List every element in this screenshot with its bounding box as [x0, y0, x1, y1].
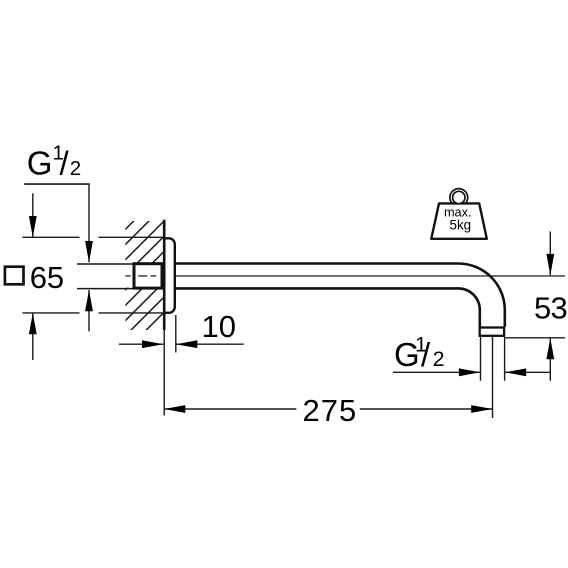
svg-text:2: 2: [70, 157, 81, 180]
svg-text:2: 2: [433, 347, 445, 371]
svg-text:/: /: [421, 336, 431, 373]
svg-text:10: 10: [202, 309, 236, 344]
svg-text:G: G: [27, 145, 53, 182]
svg-text:/: /: [60, 145, 70, 182]
svg-text:5kg: 5kg: [450, 217, 472, 232]
svg-text:53: 53: [534, 291, 567, 326]
svg-text:275: 275: [303, 393, 358, 428]
svg-text:65: 65: [30, 260, 64, 295]
